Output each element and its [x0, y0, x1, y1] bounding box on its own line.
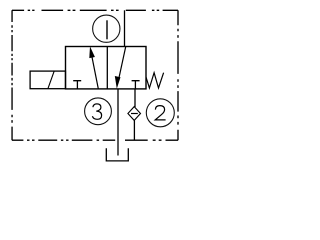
solenoid diagonal	[48, 71, 54, 89]
right position flow arrowhead	[115, 76, 121, 89]
solenoid actuator box	[30, 71, 65, 89]
port 2 label circle	[146, 99, 174, 127]
blocked port T (right square)	[132, 81, 140, 89]
numeral 1	[106, 20, 108, 39]
port 3 line to tank	[117, 89, 119, 156]
cartridge boundary left edge (phantom line)	[11, 10, 13, 140]
port 2 line lower	[133, 120, 135, 140]
port 1 line	[124, 10, 126, 46]
orifice diamond	[128, 107, 141, 121]
port 3 label circle	[85, 98, 112, 125]
port 1 label circle	[93, 15, 120, 42]
left position flow arrowhead	[89, 46, 95, 58]
left position flow arrow line	[92, 55, 99, 89]
numeral 3	[92, 104, 101, 119]
blocked port T (left square)	[73, 81, 81, 89]
cartridge boundary top edge (phantom line)	[12, 9, 178, 11]
cartridge boundary bottom edge (phantom line)	[12, 139, 178, 141]
orifice dash	[131, 113, 138, 115]
numeral 2	[155, 106, 165, 120]
return spring	[146, 73, 164, 88]
envelope divider	[106, 47, 108, 89]
valve body (two-position envelope)	[66, 47, 147, 89]
port 2 line upper	[134, 89, 136, 107]
cartridge boundary right edge (phantom line)	[177, 10, 179, 140]
tank symbol	[106, 148, 128, 161]
right position flow arrow line	[119, 47, 126, 80]
